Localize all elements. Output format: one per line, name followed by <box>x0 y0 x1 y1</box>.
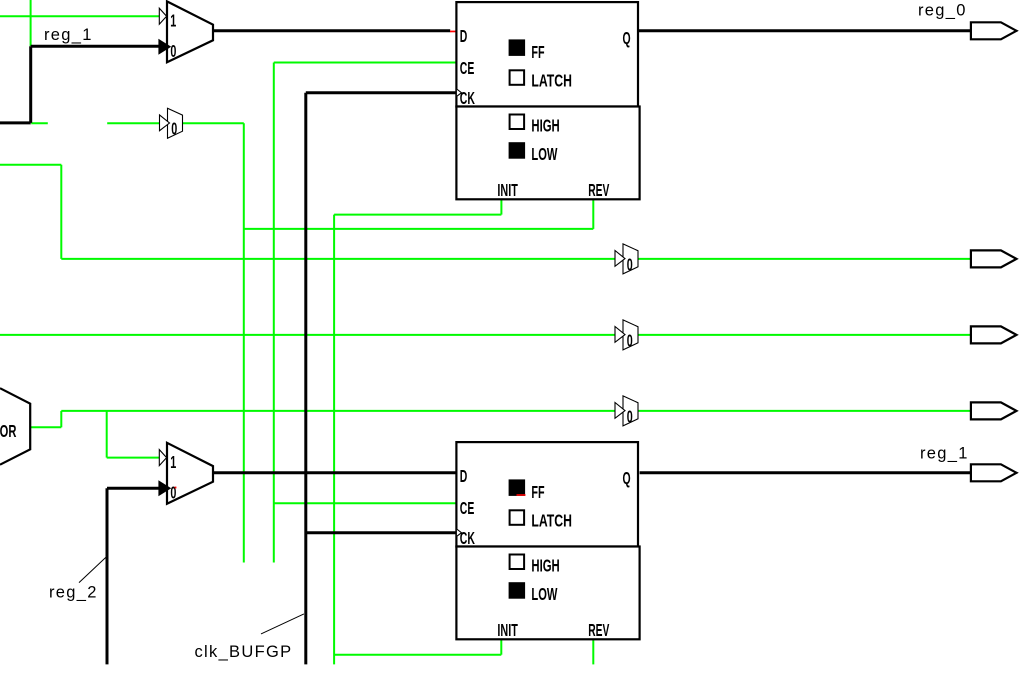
mux M1 <box>158 1 213 62</box>
wire green segment left of gap <box>31 122 48 124</box>
wire vertical x=61 lower <box>60 411 62 427</box>
port P3 <box>971 326 1017 343</box>
wire to mux M2 input 1 <box>107 457 160 459</box>
svg-text:reg_1: reg_1 <box>920 445 969 463</box>
svg-text:CE: CE <box>460 499 475 519</box>
svg-text:0: 0 <box>170 43 176 62</box>
svg-text:LOW: LOW <box>531 145 558 165</box>
svg-text:REV: REV <box>588 621 609 641</box>
svg-text:CK: CK <box>460 530 475 550</box>
svg-text:CK: CK <box>460 90 475 110</box>
wire through buffer B1 <box>107 122 244 124</box>
wire to port P4 through buffer B4 <box>61 410 971 412</box>
svg-text:OR: OR <box>0 421 17 441</box>
mux M2 <box>158 443 213 504</box>
svg-text:FF: FF <box>531 44 544 63</box>
svg-text:reg_1: reg_1 <box>44 26 93 44</box>
wire INIT2 stub <box>500 640 502 655</box>
port P4 <box>971 402 1017 419</box>
port P1 reg_0 <box>971 22 1017 39</box>
wire reg_2 vertical <box>106 488 109 664</box>
wire reg_1 net vertical stub top left <box>30 0 32 46</box>
wire FF2 Q to port P5 <box>640 471 971 474</box>
svg-text:HIGH: HIGH <box>531 556 559 576</box>
svg-text:INIT: INIT <box>497 622 517 641</box>
svg-text:reg_2: reg_2 <box>49 584 98 602</box>
wire CE1 horizontal <box>274 62 457 64</box>
svg-text:INIT: INIT <box>497 182 517 201</box>
wire mux M2 output to FF2 D <box>213 471 456 474</box>
wire INIT vertical x=334 <box>333 215 335 665</box>
leader line clk_BUFGP <box>261 614 304 634</box>
buffer B4 <box>615 396 638 427</box>
svg-text:LOW: LOW <box>531 585 558 605</box>
wire CK vertical x=306 <box>304 93 307 665</box>
gate (partial hexagon, XOR) <box>0 388 30 465</box>
svg-text:LATCH: LATCH <box>531 511 572 531</box>
svg-text:0: 0 <box>171 120 177 139</box>
wire REV1 stub <box>592 199 594 229</box>
wire CE vertical x=274 <box>273 63 275 563</box>
wire FF1 Q to port P1 <box>638 29 971 32</box>
svg-text:D: D <box>460 27 468 47</box>
svg-text:Q: Q <box>622 29 630 49</box>
wire INIT2 horizontal <box>334 654 501 656</box>
flip-flop FF2 <box>456 442 639 641</box>
svg-text:D: D <box>460 467 468 487</box>
wire mux M1 output to FF1 D <box>213 29 450 32</box>
wire vertical x=244 <box>243 123 245 562</box>
wire INIT1 horizontal <box>334 214 501 216</box>
pin stub red under FF2 checkbox <box>517 494 526 496</box>
svg-text:reg_0: reg_0 <box>918 1 967 19</box>
wire net to mux M1 input 1 <box>0 15 159 17</box>
wire reg_1 horizontal to mux M1 input 0 <box>31 45 162 48</box>
wire to port P2 through buffer B2 <box>61 258 971 260</box>
svg-text:0: 0 <box>627 408 633 427</box>
wire CE2 horizontal <box>274 502 457 504</box>
wire CK1 horizontal <box>306 91 457 94</box>
pin stub red at FF1 D <box>450 31 457 33</box>
svg-text:clk_BUFGP: clk_BUFGP <box>195 643 293 661</box>
svg-text:0: 0 <box>627 332 633 351</box>
wire reg_1 vertical <box>29 46 32 123</box>
svg-text:FF: FF <box>531 484 544 503</box>
svg-text:CE: CE <box>460 59 475 79</box>
flip-flop FF1 <box>456 2 639 201</box>
wire reg_2 horizontal to mux M2 input 0 <box>107 487 162 490</box>
leader line reg_2 <box>79 556 107 582</box>
buffer B1 <box>160 108 183 139</box>
svg-text:1: 1 <box>170 453 176 472</box>
svg-text:1: 1 <box>170 12 176 31</box>
buffer B3 <box>615 320 638 351</box>
wire REV1 horizontal <box>244 228 594 230</box>
port P2 <box>971 250 1017 267</box>
svg-text:LATCH: LATCH <box>531 71 572 91</box>
wire INIT1 stub <box>500 199 502 214</box>
buffer B2 <box>615 244 638 275</box>
port P5 reg_1 <box>971 464 1017 481</box>
node red dot at mux M2 input 0 <box>175 487 177 489</box>
wire horizontal y=165 from left edge <box>0 164 61 166</box>
wire CK2 horizontal <box>306 531 457 534</box>
svg-text:0: 0 <box>627 256 633 275</box>
svg-text:HIGH: HIGH <box>531 116 559 136</box>
wire reg_1 bottom horizontal <box>0 121 31 124</box>
wire to port P3 through buffer B3 <box>0 334 971 336</box>
wire branch vertical x=107 <box>106 411 108 458</box>
svg-text:REV: REV <box>588 181 609 201</box>
wire vertical x=61 upper <box>60 165 62 259</box>
wire from gate output <box>30 426 61 428</box>
wire REV2 stub <box>592 640 594 665</box>
svg-text:Q: Q <box>622 469 630 489</box>
